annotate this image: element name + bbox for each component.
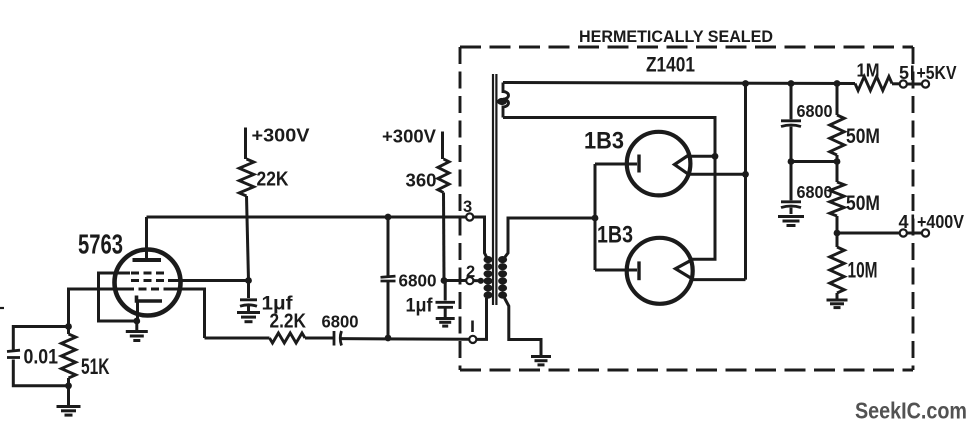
wire to terminal 4	[837, 232, 900, 235]
wire secondary top	[505, 218, 595, 257]
terminal 1	[469, 336, 476, 343]
wire rail second	[503, 118, 715, 260]
svg-text:0.01: 0.01	[24, 346, 59, 369]
svg-text:360: 360	[406, 170, 437, 191]
capacitor C6 6800	[790, 84, 793, 120]
wire	[69, 289, 131, 327]
svg-text:51K: 51K	[81, 354, 110, 379]
wire	[791, 160, 837, 163]
resistor R6 50M	[836, 162, 839, 183]
tube V2 plate	[637, 155, 640, 173]
svg-text:2: 2	[466, 263, 475, 281]
ground	[436, 317, 455, 320]
wire terminal3 to primary	[473, 217, 486, 257]
svg-text:5763: 5763	[78, 229, 123, 260]
svg-text:6800: 6800	[797, 101, 833, 121]
svg-text:5: 5	[899, 63, 909, 83]
capacitor C2 1μf	[247, 281, 250, 299]
wire to terminal 2	[444, 279, 466, 282]
resistor R7 10M	[836, 233, 839, 247]
svg-text:HERMETICALLY SEALED: HERMETICALLY SEALED	[579, 28, 773, 46]
tube V2 1B3 envelope	[627, 132, 691, 196]
wire filament bus	[744, 84, 747, 280]
svg-text:+5KV: +5KV	[917, 63, 957, 83]
transformer secondary winding	[498, 256, 507, 263]
wire	[0, 307, 4, 309]
resistor R8 1M	[855, 77, 892, 91]
ground	[237, 311, 260, 314]
svg-text:4: 4	[899, 212, 909, 232]
wire	[205, 337, 270, 340]
ground	[778, 215, 804, 218]
svg-text:2.2K: 2.2K	[270, 310, 307, 333]
node	[788, 80, 795, 87]
svg-text:1μf: 1μf	[406, 296, 434, 317]
node	[385, 335, 392, 342]
wire primary tap	[473, 279, 483, 282]
node	[834, 80, 841, 87]
node	[441, 277, 448, 284]
resistor R1 51K	[67, 327, 70, 335]
node	[834, 230, 841, 237]
resistor R5 50M	[836, 84, 839, 116]
wire	[99, 273, 137, 321]
capacitor C4 1μf	[444, 281, 447, 301]
ground	[67, 386, 70, 406]
node screen	[245, 277, 252, 284]
tube V2 filament	[675, 155, 690, 176]
node	[788, 158, 795, 165]
tube V1 grid2	[131, 279, 170, 282]
transformer core	[492, 74, 494, 305]
wire filament bottom	[688, 173, 746, 176]
resistor R2 22K	[244, 128, 247, 160]
tube V3 1B3 envelope	[627, 238, 693, 304]
tube V1 grid3	[131, 272, 166, 275]
wire secondary bottom	[505, 298, 542, 353]
wire	[342, 337, 470, 341]
wire filament top	[689, 258, 717, 261]
capacitor C1	[13, 327, 68, 350]
wire primary bottom	[476, 298, 486, 339]
wire plate to terminal 3	[147, 216, 467, 219]
tube V3 filament	[676, 260, 692, 278]
terminal 3	[466, 213, 473, 220]
svg-text:+300V: +300V	[252, 126, 310, 146]
wire filament bottom	[690, 278, 746, 281]
svg-text:6800: 6800	[322, 312, 359, 332]
tube V1 grid1	[126, 288, 166, 291]
svg-text:6800: 6800	[797, 182, 833, 202]
tube V1 cathode	[137, 296, 163, 302]
svg-text:SeekIC.com: SeekIC.com	[855, 398, 967, 424]
transformer primary winding	[484, 256, 493, 263]
svg-text:Z1401: Z1401	[646, 53, 695, 77]
terminal 4 +400V	[900, 229, 907, 236]
node A	[65, 323, 72, 330]
wire rail top	[503, 83, 855, 84]
svg-text:50M: 50M	[846, 192, 880, 215]
wire filament top	[688, 155, 716, 158]
svg-text:6800: 6800	[399, 271, 437, 291]
svg-text:1M: 1M	[857, 61, 880, 81]
ground	[540, 340, 543, 356]
svg-text:22K: 22K	[257, 168, 289, 191]
wire	[168, 279, 249, 282]
enclosure dashed box	[460, 46, 913, 49]
wire	[305, 337, 333, 340]
capacitor C7 6800	[790, 162, 793, 201]
node cathode	[133, 318, 140, 325]
tube V1 envelope	[115, 250, 181, 316]
terminal 2	[466, 277, 473, 284]
svg-text:10M: 10M	[848, 258, 878, 283]
svg-text:+300V: +300V	[382, 127, 436, 147]
ground	[827, 299, 848, 302]
transformer filament winding	[503, 83, 509, 118]
resistor R3 360	[441, 132, 444, 160]
capacitor C3 6800	[387, 217, 390, 276]
svg-text:3: 3	[463, 198, 472, 216]
svg-text:50M: 50M	[846, 125, 880, 148]
terminal 5 +5KV	[900, 80, 907, 87]
wire	[166, 289, 205, 338]
node	[385, 214, 392, 221]
node B	[65, 382, 72, 389]
node tap	[497, 98, 507, 105]
svg-text:1B3: 1B3	[584, 128, 624, 155]
capacitor C5 6800	[333, 331, 336, 346]
tube V3 plate	[637, 261, 640, 280]
svg-text:+400V: +400V	[917, 212, 964, 232]
ground	[135, 321, 138, 331]
resistor R4 2.2K	[270, 333, 306, 343]
wire to plates	[595, 163, 637, 166]
svg-text:1B3: 1B3	[597, 222, 633, 249]
tube V1 plate	[133, 258, 162, 262]
